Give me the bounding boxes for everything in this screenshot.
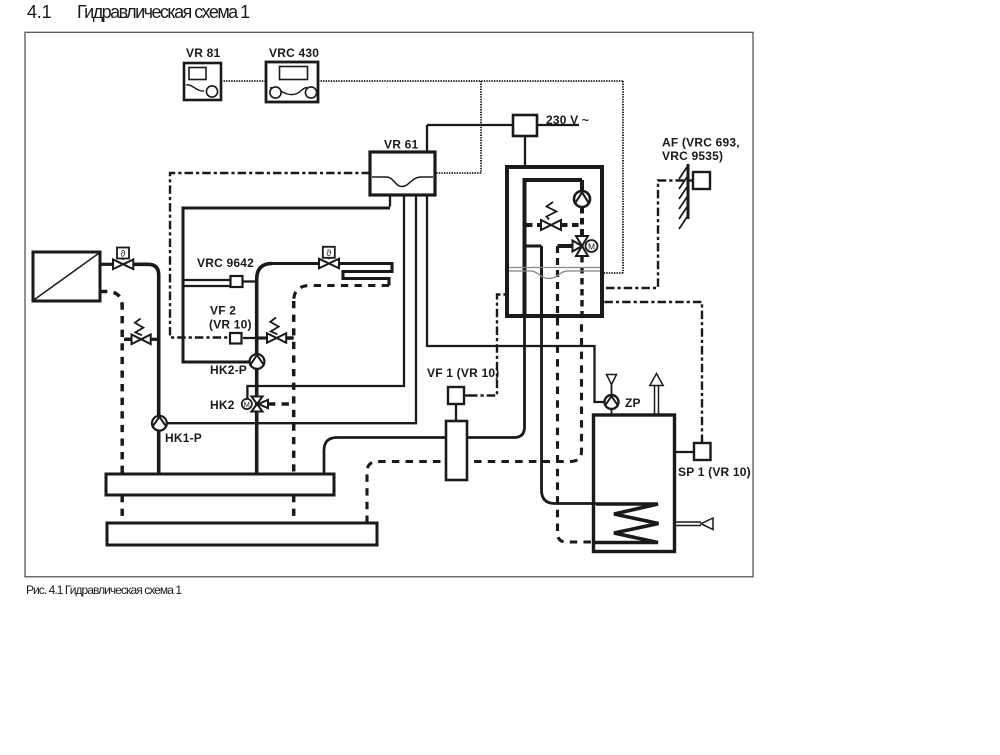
svg-text:HK2-P: HK2-P [210, 363, 247, 377]
svg-text:HK2: HK2 [210, 398, 235, 412]
svg-text:VR 61: VR 61 [384, 138, 418, 152]
svg-text:ZP: ZP [625, 396, 641, 410]
svg-text:(VR 10): (VR 10) [209, 318, 252, 332]
svg-text:VF 1 (VR 10): VF 1 (VR 10) [427, 366, 499, 380]
svg-text:VF 2: VF 2 [210, 304, 236, 318]
svg-text:VR 81: VR 81 [186, 46, 220, 60]
svg-text:VRC 430: VRC 430 [269, 46, 319, 60]
svg-text:230 V ~: 230 V ~ [546, 113, 589, 127]
svg-text:M: M [244, 400, 250, 409]
svg-text:VRC 9535): VRC 9535) [662, 149, 723, 163]
svg-text:4.1: 4.1 [27, 2, 52, 22]
svg-text:Гидравлическая схема 1: Гидравлическая схема 1 [77, 2, 250, 22]
svg-text:AF (VRC 693,: AF (VRC 693, [662, 136, 740, 150]
svg-text:ϑ: ϑ [326, 248, 331, 258]
svg-text:ϑ: ϑ [121, 249, 126, 259]
svg-text:SP 1 (VR 10): SP 1 (VR 10) [678, 465, 751, 479]
svg-text:VRC 9642: VRC 9642 [197, 256, 254, 270]
svg-text:HK1-P: HK1-P [165, 431, 202, 445]
svg-text:M: M [588, 242, 595, 252]
svg-text:Рис. 4.1 Гидравлическая схема: Рис. 4.1 Гидравлическая схема 1 [26, 583, 182, 597]
